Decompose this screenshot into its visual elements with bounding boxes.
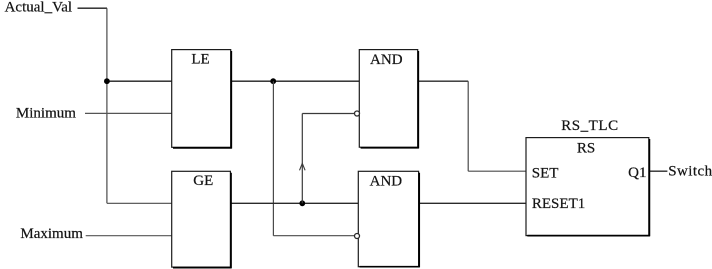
gate AND1 box (top) (359, 50, 419, 149)
negation bubble at AND1 input 2 (355, 111, 360, 116)
wire Actual_Val vertical down to GE input (106, 8, 108, 203)
svg-text:RS_TLC: RS_TLC (561, 118, 618, 134)
arrow up on feedback wire (300, 163, 306, 170)
node junction dot on LE output (270, 78, 276, 84)
wire down to SET level (467, 81, 469, 171)
svg-text:Q1: Q1 (628, 165, 646, 181)
wire Maximum lead (86, 235, 172, 237)
svg-text:Maximum: Maximum (20, 226, 83, 242)
svg-text:Minimum: Minimum (16, 105, 76, 121)
node junction dot on GE output (299, 200, 305, 206)
wire Actual_Val lead (78, 7, 108, 9)
wire Minimum lead (85, 112, 172, 114)
wire AND1 output (418, 80, 469, 82)
svg-text:Switch: Switch (668, 163, 712, 179)
wire feedback vertical from LE output down (272, 81, 274, 236)
wire into RS SET input (468, 170, 526, 172)
wire RS Q1 output to Switch (649, 170, 668, 172)
svg-text:RS: RS (577, 140, 595, 156)
wire GE input 1 horizontal (107, 202, 172, 204)
svg-text:LE: LE (191, 52, 209, 68)
svg-text:AND: AND (370, 173, 403, 189)
negation bubble at AND2 input 2 (355, 234, 360, 239)
svg-text:AND: AND (370, 52, 403, 68)
svg-text:GE: GE (193, 173, 213, 189)
wire feedback vertical up from GE output (301, 114, 303, 204)
comparator LE box (172, 50, 232, 149)
wire GE output to AND2 input 1 (230, 202, 358, 204)
wire AND2 output to RS RESET1 input (419, 202, 526, 204)
svg-text:Actual_Val: Actual_Val (5, 0, 72, 15)
svg-text:RESET1: RESET1 (532, 196, 585, 212)
function block RS box (526, 138, 650, 237)
comparator GE box (172, 171, 232, 268)
gate AND2 box (bottom) (358, 171, 419, 267)
wire LE output to AND1 input 1 (231, 80, 360, 82)
node junction dot on Actual_Val line (104, 78, 110, 84)
wire into AND2 negated input 2 (273, 235, 354, 237)
svg-text:SET: SET (532, 166, 559, 182)
wire into AND1 negated input 2 (302, 113, 355, 115)
wire LE input 1 from junction (107, 80, 172, 82)
